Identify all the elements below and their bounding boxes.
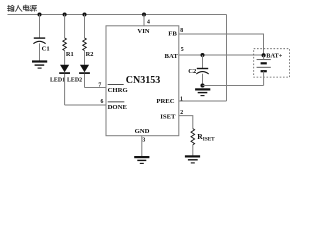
svg-text:R2: R2 <box>86 51 94 58</box>
wire: VIN stub pin 4 <box>143 15 145 26</box>
wire: LED2 cathode down to CHRG <box>84 74 86 88</box>
wire: battery internal leads <box>263 55 265 85</box>
ground (RISET) <box>185 156 200 163</box>
wire: R1 top lead <box>64 15 66 39</box>
svg-text:C1: C1 <box>42 45 50 52</box>
node: C2 / battery return junction <box>200 83 204 87</box>
svg-text:7: 7 <box>98 83 101 89</box>
node: rail junction VIN <box>142 13 146 17</box>
svg-text:CHRG: CHRG <box>108 87 129 94</box>
svg-text:FB: FB <box>168 30 177 37</box>
net label 输入电源 (input power) <box>7 5 36 11</box>
resistor RISET <box>191 129 215 145</box>
wire: input rail <box>8 14 227 16</box>
svg-text:1: 1 <box>180 97 183 103</box>
capacitor C2 <box>188 68 209 75</box>
wire: R2 top lead <box>84 15 86 39</box>
svg-text:CN3153: CN3153 <box>126 75 161 86</box>
svg-text:5: 5 <box>181 47 184 53</box>
battery BAT+ dashed enclosure <box>254 49 290 77</box>
wire: FB lead to battery positive <box>179 34 264 55</box>
svg-text:ISET: ISET <box>160 113 176 120</box>
node: rail junction C1 <box>38 13 42 17</box>
svg-text:2: 2 <box>180 110 183 116</box>
svg-text:8: 8 <box>180 28 183 34</box>
wire: R2 to LED2 <box>84 51 86 65</box>
ground (C2) <box>195 89 210 95</box>
svg-text:4: 4 <box>147 19 150 25</box>
svg-text:VIN: VIN <box>137 28 149 35</box>
wire: GND stub pin 3 <box>141 136 143 157</box>
LED LED2 <box>67 65 90 84</box>
wire: ISET lead <box>179 116 193 129</box>
wire: rail drop to PREC <box>226 15 228 102</box>
LED LED1 <box>50 65 70 84</box>
node: rail junction R1 <box>63 13 67 17</box>
node: rail junction R2 <box>83 13 87 17</box>
wire: C1 to ground <box>39 43 41 60</box>
wire: CHRG pin lead <box>85 87 107 89</box>
wire: C2 bottom lead <box>202 74 204 86</box>
svg-text:BAT: BAT <box>165 53 179 60</box>
svg-text:C2: C2 <box>188 68 197 75</box>
capacitor C1 <box>33 38 49 52</box>
wire: C1 top lead <box>39 15 41 39</box>
svg-text:DONE: DONE <box>108 104 128 111</box>
svg-text:BAT+: BAT+ <box>266 53 282 60</box>
wire: DONE pin lead <box>65 104 106 106</box>
svg-text:R1: R1 <box>66 51 74 58</box>
svg-text:6: 6 <box>101 99 104 105</box>
wire: battery return to ground node <box>203 85 264 87</box>
svg-text:ISET: ISET <box>203 137 215 143</box>
ground (GND pin) <box>134 157 149 163</box>
wire: C2 top lead <box>202 55 204 68</box>
op-amp U1 CN3153 body <box>106 26 179 136</box>
resistor R1 <box>63 38 74 58</box>
wire: R1 to LED1 <box>64 51 66 65</box>
resistor R2 <box>83 38 94 58</box>
node: battery positive junction <box>262 53 266 57</box>
svg-text:LED1: LED1 <box>50 77 65 83</box>
wire: LED1 cathode down to DONE <box>64 74 66 105</box>
svg-text:PREC: PREC <box>156 98 174 105</box>
svg-text:GND: GND <box>135 128 150 135</box>
wire: PREC lead <box>179 100 227 102</box>
ground (C1) <box>32 62 47 69</box>
wire: RISET to ground <box>192 145 194 157</box>
svg-text:LED2: LED2 <box>67 77 82 83</box>
node: BAT / C2 junction <box>201 53 205 57</box>
wire: BAT lead <box>179 54 264 56</box>
svg-text:3: 3 <box>142 137 145 143</box>
battery BAT+ <box>257 53 283 72</box>
